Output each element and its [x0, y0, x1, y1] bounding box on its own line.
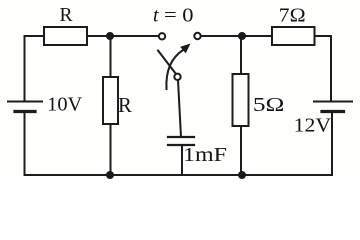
switch S1 pole terminal (bottom) — [174, 74, 180, 80]
switch S1 left contact terminal — [159, 33, 165, 39]
node bottom-left junction dot — [106, 171, 114, 179]
wire right vertical upper — [330, 36, 332, 102]
battery V2 12V positive plate (long) — [314, 101, 352, 103]
svg-text:5Ω: 5Ω — [253, 94, 285, 116]
wire capacitor to bottom rail — [181, 145, 183, 175]
resistor R3 (7 ohm, horizontal) — [272, 27, 315, 45]
wire bottom rail — [25, 174, 333, 176]
wire node A down to R2 — [110, 36, 112, 77]
switch S1 motion arrowhead — [180, 44, 190, 54]
wire switch pole down to capacitor — [178, 80, 181, 137]
capacitor C1 bottom plate — [168, 144, 194, 146]
svg-text:10V: 10V — [47, 94, 83, 116]
svg-text:t: t — [153, 5, 159, 27]
svg-text:12V: 12V — [294, 114, 332, 136]
node bottom-right junction dot — [238, 171, 246, 179]
wire right contact to node B — [201, 35, 272, 37]
svg-text:= 0: = 0 — [164, 5, 194, 27]
wire R3 to top-right corner — [315, 35, 332, 37]
svg-text:R: R — [118, 93, 132, 117]
capacitor C1 top plate — [168, 136, 194, 138]
switch S1 blade — [158, 51, 176, 74]
svg-text:7Ω: 7Ω — [279, 5, 306, 27]
wire R1 to node A — [87, 35, 159, 37]
wire left vertical lower — [24, 112, 26, 176]
node B junction dot — [238, 32, 246, 40]
node A junction dot — [106, 32, 114, 40]
wire R4 to bottom node — [240, 126, 242, 175]
wire right vertical lower — [331, 112, 333, 176]
battery V2 12V negative plate (short) — [322, 110, 344, 113]
wire R2 to bottom node — [110, 124, 112, 175]
wire left vertical upper — [24, 36, 26, 102]
resistor R1 (top left, horizontal) — [44, 27, 87, 45]
resistor R2 (vertical) — [103, 77, 118, 124]
svg-text:R: R — [60, 4, 74, 26]
svg-text:1mF: 1mF — [183, 144, 227, 166]
battery V1 10V positive plate (long) — [8, 101, 42, 103]
switch S1 right contact terminal — [194, 33, 200, 39]
resistor R4 (5 ohm, vertical) — [233, 74, 249, 126]
wire node B down to R4 — [240, 36, 242, 74]
battery V1 10V negative plate (short) — [15, 110, 35, 113]
wire top-left horizontal — [25, 35, 45, 37]
switch S1 motion arrow arc — [166, 50, 183, 89]
